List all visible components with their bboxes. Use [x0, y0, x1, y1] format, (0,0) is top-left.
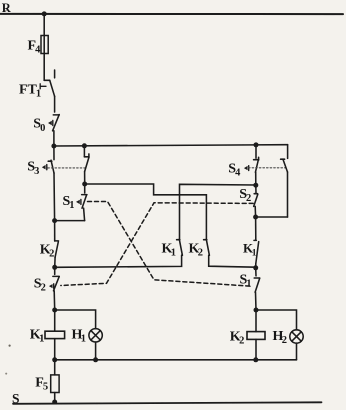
relay coil K1: [30, 310, 65, 360]
relay contact K2 (middle, NO): [189, 239, 256, 267]
fuse F5: [35, 360, 59, 402]
pushbutton S3 NC contact: [27, 146, 54, 177]
bottom common rail: [55, 359, 297, 361]
junction S4 NC rejoin: [253, 215, 258, 220]
mechanical link S1 (dashed): [88, 202, 253, 287]
junction K2 coil bottom: [253, 357, 258, 362]
node C: [52, 265, 57, 270]
wire node A horizontal: [54, 145, 288, 146]
fuse F4: [28, 36, 49, 56]
junction right column: [254, 142, 259, 147]
junction H1 bottom: [93, 357, 98, 362]
junction on R rail: [42, 11, 47, 16]
junction S3 branch: [82, 143, 87, 148]
junction on S rail: [52, 400, 57, 405]
pushbutton S4 NC contact (right branch): [256, 145, 288, 217]
wire S0 to node A: [53, 131, 55, 146]
wire FT1 to S0: [54, 96, 56, 112]
relay coil K2: [230, 310, 265, 360]
relay contact K1 (right, NO): [243, 217, 259, 268]
relay contact K1 (middle, NO): [162, 239, 183, 258]
ink speck: [9, 345, 11, 347]
junction K1 coil bottom: [52, 357, 57, 362]
ink speck: [5, 10, 7, 12]
wire S3 to node B: [53, 173, 56, 221]
wire R to F4: [43, 14, 45, 36]
wire F4 to FT1: [43, 54, 45, 81]
node D' right: [254, 308, 259, 313]
supply rail R: [0, 13, 343, 15]
thermal contact FT1: [19, 70, 55, 100]
mechanical link S4 (dotted): [249, 167, 286, 169]
pushbutton S0 (NC): [33, 115, 59, 134]
junction under S4 NO: [253, 183, 258, 188]
supply rail S: [13, 402, 322, 404]
mechanical link S3 (dotted): [48, 167, 86, 169]
node B: [52, 218, 57, 223]
node A: [51, 144, 56, 149]
wire S4 branch to K1 middle contact: [180, 184, 256, 239]
relay contact K2 (left, NO): [40, 221, 59, 268]
pushbutton S2 NC contact (right): [239, 185, 258, 217]
junction under S3 NO: [82, 182, 87, 187]
wire node C to K1 middle contact: [55, 255, 182, 267]
pushbutton S1 NC contact (right): [240, 268, 260, 310]
mechanical link S2 (dashed): [61, 203, 253, 286]
svg-text:R: R: [2, 1, 12, 15]
node D: [52, 308, 57, 313]
lamp H1: [55, 310, 103, 360]
pushbutton S2 NC contact (left): [34, 267, 59, 310]
svg-text:S: S: [12, 391, 20, 406]
wire right column top: [255, 145, 257, 158]
wire S3-NO branch to K2 contact (staircase): [85, 184, 207, 239]
lamp H2: [256, 310, 303, 360]
pushbutton S1 NC contact (left): [55, 184, 87, 221]
node C' right column: [253, 265, 258, 270]
pushbutton S4 NO contact: [228, 157, 258, 185]
pushbutton S3 NO contact: [84, 146, 89, 184]
ink speck: [5, 373, 7, 375]
